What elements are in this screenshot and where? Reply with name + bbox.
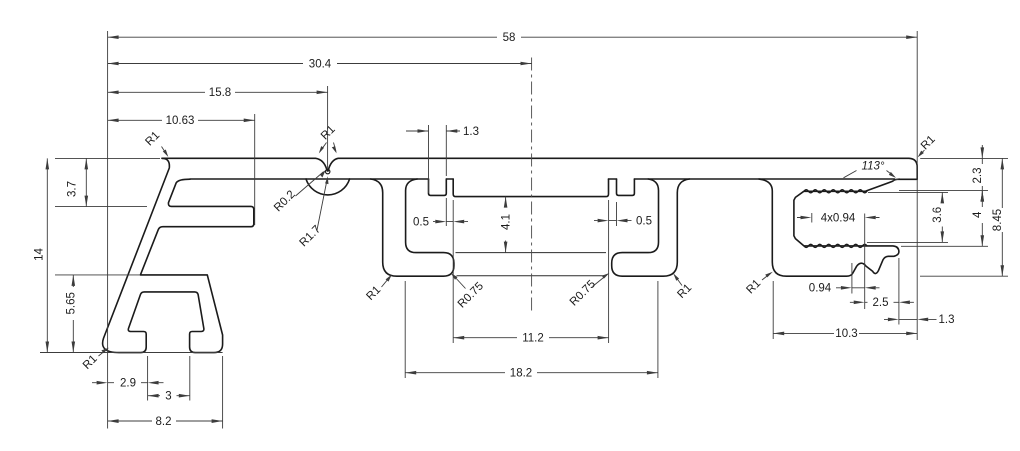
dimension 30.4 xyxy=(108,58,532,70)
arm tip extension x=254.7 xyxy=(254,114,256,225)
dimension 4.1 vertical xyxy=(500,197,512,253)
dimension 8.45 right xyxy=(992,158,1004,276)
svg-text:3.7: 3.7 xyxy=(67,181,79,197)
svg-text:10.63: 10.63 xyxy=(166,115,195,127)
bottom right extensions xyxy=(773,258,899,339)
dimension 4 right xyxy=(972,191,984,247)
angle label 113 xyxy=(844,161,900,182)
svg-text:15.8: 15.8 xyxy=(209,87,231,99)
dimension 4x0.94 xyxy=(797,212,880,224)
dimension 18.2 xyxy=(405,368,658,380)
right groove extension xyxy=(616,202,618,226)
right foot with gasket slot, mouth lips and wavy notch xyxy=(759,179,899,276)
svg-text:4.1: 4.1 xyxy=(500,214,512,230)
svg-text:5.65: 5.65 xyxy=(66,292,78,314)
svg-text:0.5: 0.5 xyxy=(413,216,429,228)
dimension 2.9 xyxy=(92,378,164,390)
radius label R1 mid-right wall xyxy=(673,273,694,301)
R0.2 circle at the notch xyxy=(326,169,330,173)
central slab step 11.2 xyxy=(453,179,608,197)
svg-text:3.6: 3.6 xyxy=(932,207,944,223)
dimension 0.94 bottom xyxy=(809,283,880,295)
svg-text:8.2: 8.2 xyxy=(156,416,172,428)
profile outline: top surface with break-off notch, right corner, mouth chamfer xyxy=(162,158,917,191)
groove 1.3 right xyxy=(617,179,635,195)
left hook: fillet, outer slant, foot with dovetail cavity, arm, inner slant xyxy=(103,158,254,352)
dimension 8.2 xyxy=(108,416,223,428)
centerline node (dash-dot) xyxy=(531,58,533,313)
right middle wall with tab xyxy=(612,179,690,276)
radius label R1 notch xyxy=(319,123,338,153)
svg-text:113°: 113° xyxy=(862,161,885,173)
slab step extensions xyxy=(453,200,608,343)
R1.7 arc under the notch xyxy=(306,179,350,195)
radius label R0.2 xyxy=(272,170,326,215)
dimension 5.65 left xyxy=(66,275,78,353)
middle bottom extensions xyxy=(405,281,658,378)
svg-text:4x0.94: 4x0.94 xyxy=(821,212,856,224)
radius label R0.75 left xyxy=(451,273,486,310)
central web reference lines xyxy=(456,253,607,276)
top serration wave xyxy=(804,190,867,193)
foot bottom extensions xyxy=(148,356,223,429)
svg-text:2.5: 2.5 xyxy=(873,297,889,309)
radius label R0.75 right xyxy=(568,273,610,308)
dimension 58 xyxy=(108,32,918,44)
svg-text:0.94: 0.94 xyxy=(809,283,832,295)
right master extension x=917.2 xyxy=(916,31,918,340)
svg-text:8.45: 8.45 xyxy=(992,209,1004,231)
svg-text:10.3: 10.3 xyxy=(835,328,857,340)
right side horizontal extensions xyxy=(867,158,1008,276)
svg-text:1.3: 1.3 xyxy=(463,126,479,138)
dimension 1.3 top xyxy=(406,126,479,138)
dimension 2.3 right xyxy=(971,145,984,202)
radius label R1 top-left xyxy=(143,129,168,157)
dimension 0.5 right xyxy=(594,215,652,227)
dimension 1.3 right xyxy=(884,314,955,326)
dimension 10.63 xyxy=(108,115,255,127)
svg-text:2.9: 2.9 xyxy=(120,378,136,390)
svg-text:2.3: 2.3 xyxy=(972,168,984,184)
radius label R1.7 xyxy=(298,176,329,249)
svg-text:11.2: 11.2 xyxy=(522,333,544,345)
left master extension x=107.6 xyxy=(107,31,109,429)
groove 1.3 left xyxy=(429,179,447,195)
notch leader extension x=327.6 xyxy=(327,86,329,169)
serration dim extensions xyxy=(812,213,865,309)
dimension 11.2 xyxy=(453,333,608,345)
dimension 3.7 left xyxy=(67,158,89,206)
radius label R1 top-right xyxy=(918,133,938,157)
dimension 15.8 xyxy=(108,87,328,99)
left middle wall with tab xyxy=(371,179,454,276)
svg-text:1.3: 1.3 xyxy=(939,314,955,326)
dimension 3 xyxy=(148,391,190,403)
underside of the deck xyxy=(190,178,895,180)
groove extensions xyxy=(429,125,447,226)
svg-text:58: 58 xyxy=(503,32,516,44)
svg-text:30.4: 30.4 xyxy=(309,58,332,70)
svg-text:18.2: 18.2 xyxy=(510,368,532,380)
bottom serration wave xyxy=(804,244,867,247)
dimension 2.5 xyxy=(850,297,914,309)
dimension 10.3 xyxy=(773,328,917,340)
left side horizontal extensions xyxy=(40,158,223,352)
dimension 3.6 right xyxy=(932,192,944,242)
svg-text:3: 3 xyxy=(165,391,171,403)
svg-text:0.5: 0.5 xyxy=(636,215,652,227)
radius label R1 right foot xyxy=(744,272,772,297)
dimension 0.5 left xyxy=(413,216,468,228)
radius label R1 mid-left wall xyxy=(364,275,391,303)
radius label R1 foot tip xyxy=(81,348,109,372)
svg-text:14: 14 xyxy=(34,248,46,261)
dimension 14 left xyxy=(34,158,50,352)
svg-text:4: 4 xyxy=(972,211,984,218)
